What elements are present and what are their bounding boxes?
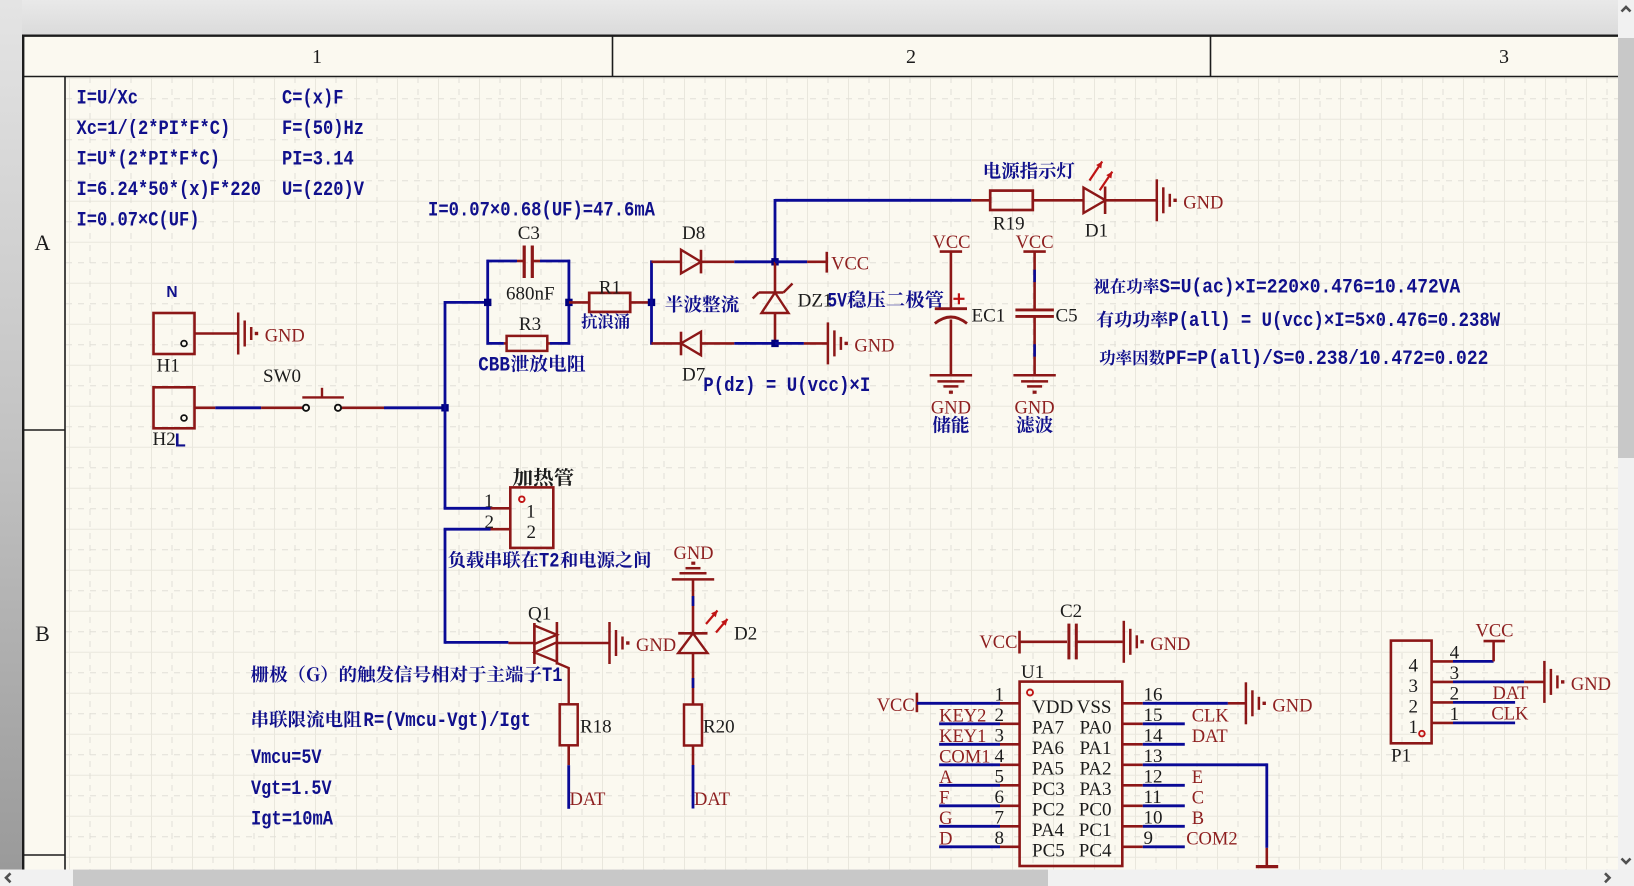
- svg-text:T2: T2: [539, 551, 560, 574]
- svg-text:D8: D8: [682, 223, 705, 244]
- svg-text:GND: GND: [636, 636, 676, 656]
- wire P1 pin3 to GND: [1453, 681, 1524, 684]
- U1 pin 10: [1122, 825, 1143, 828]
- heater pin 2: [491, 528, 511, 531]
- U1 pin 1: [1000, 702, 1020, 705]
- resistor R20: [684, 705, 702, 746]
- wire P1 pin1 CLK: [1453, 722, 1515, 725]
- resistor R1: [569, 293, 652, 312]
- resistor R19: [971, 191, 1083, 210]
- note lü-bo: [1017, 416, 1053, 433]
- svg-text:2: 2: [1409, 696, 1419, 717]
- header column divider 2/3: [1210, 37, 1212, 77]
- note chuan-lian-xian-liu R=(Vmcu-Vgt)/Igt: [252, 710, 361, 728]
- svg-text:A: A: [35, 230, 51, 255]
- triac Q1: [508, 622, 609, 704]
- U1 pin 7: [1000, 825, 1020, 828]
- ground flag GND at P1: [1544, 661, 1611, 703]
- svg-text:PC5: PC5: [1032, 840, 1065, 861]
- svg-text:E: E: [1192, 768, 1203, 788]
- svg-text:U1: U1: [1021, 662, 1044, 683]
- diode D8: [652, 250, 735, 274]
- wire net A: [939, 784, 1000, 787]
- wire net COM1: [939, 763, 1000, 766]
- note fu-zai-chuan-lian T2: [448, 551, 538, 568]
- wire net D: [939, 845, 1000, 848]
- svg-text:PC4: PC4: [1079, 840, 1112, 861]
- svg-text:P(all) = U(vcc)×I=5×0.476=0.23: P(all) = U(vcc)×I=5×0.476=0.238W: [1168, 310, 1500, 333]
- ground flag GND at H1: [238, 313, 305, 355]
- svg-text:C: C: [1192, 788, 1204, 808]
- svg-text:CLK: CLK: [1491, 705, 1529, 725]
- svg-text:T1: T1: [542, 665, 563, 688]
- svg-text:PA0: PA0: [1079, 717, 1111, 738]
- wire main vertical upper: [444, 301, 447, 508]
- svg-text:5V: 5V: [827, 291, 847, 314]
- resistor R3: [507, 336, 548, 351]
- pin of H1: [195, 332, 239, 335]
- note chu-neng: [933, 416, 969, 433]
- svg-text:R3: R3: [519, 314, 541, 335]
- ground flag GND at rectifier: [828, 322, 895, 364]
- svg-text:N: N: [166, 284, 177, 301]
- svg-text:DAT: DAT: [694, 790, 730, 810]
- U1 pin 15: [1122, 722, 1143, 725]
- svg-text:D7: D7: [682, 365, 705, 386]
- connector H1: [154, 313, 195, 354]
- ground flag GND at Q1: [610, 622, 677, 664]
- wire C3 loop right: [568, 260, 571, 345]
- diode D7: [652, 332, 735, 356]
- svg-text:4: 4: [1409, 655, 1419, 676]
- P1 pin 2: [1432, 701, 1453, 704]
- svg-text:VCC: VCC: [877, 696, 915, 716]
- junction at SW0 node: [441, 404, 448, 411]
- LED D1 arrows: [1090, 162, 1103, 181]
- svg-text:PA6: PA6: [1032, 738, 1064, 759]
- wire D7 to GND node: [734, 342, 776, 345]
- svg-text:Vgt=1.5V: Vgt=1.5V: [251, 778, 332, 801]
- wire to GND flag: [775, 342, 804, 345]
- pin of H2: [195, 406, 216, 409]
- svg-text:C5: C5: [1056, 306, 1078, 327]
- svg-text:KEY1: KEY1: [939, 727, 986, 747]
- P1 pin 3: [1432, 681, 1453, 684]
- svg-text:D: D: [939, 829, 952, 849]
- svg-text:3: 3: [1409, 676, 1419, 697]
- U1 pin 3: [1000, 743, 1020, 746]
- header column divider 1/2: [612, 37, 614, 77]
- capacitor C5: [1015, 252, 1054, 376]
- svg-text:PC0: PC0: [1079, 799, 1112, 820]
- svg-text:F=(50)Hz: F=(50)Hz: [282, 118, 364, 141]
- svg-text:PA3: PA3: [1079, 779, 1111, 800]
- svg-text:GND: GND: [931, 399, 971, 419]
- U1 pin 16: [1122, 702, 1143, 705]
- svg-text:DAT: DAT: [1493, 684, 1529, 704]
- svg-text:I=U*(2*PI*F*C): I=U*(2*PI*F*C): [77, 149, 221, 172]
- wire to heater pin 1: [444, 507, 491, 510]
- LED D2: [678, 633, 707, 704]
- svg-text:C=(x)F: C=(x)F: [282, 88, 344, 111]
- svg-text:1: 1: [312, 46, 322, 68]
- pin below R18: [567, 745, 570, 765]
- svg-text:R19: R19: [993, 214, 1025, 235]
- svg-text:Igt=10mA: Igt=10mA: [251, 809, 333, 832]
- U1 pin 14: [1122, 743, 1143, 746]
- svg-text:VCC: VCC: [932, 233, 970, 253]
- ground flag GND at U1 pin16: [1246, 682, 1313, 724]
- connector P1: [1391, 641, 1432, 744]
- U1 pin 12: [1122, 784, 1143, 787]
- wire U1 pin13 horizontal: [1143, 763, 1267, 766]
- svg-text:1: 1: [526, 502, 536, 523]
- note dian-yuan-zhi-shi-deng: [985, 162, 1075, 179]
- U1 pin 5: [1000, 784, 1020, 787]
- svg-text:B: B: [1192, 809, 1204, 829]
- formula active power: [1097, 311, 1168, 328]
- svg-text:GND: GND: [854, 337, 894, 357]
- svg-text:DAT: DAT: [1192, 727, 1228, 747]
- svg-text:C2: C2: [1060, 601, 1082, 622]
- junction C3 loop left: [484, 299, 491, 306]
- scrollbar corner: [1618, 870, 1634, 886]
- svg-text:D1: D1: [1085, 221, 1108, 242]
- svg-text:P(dz) = U(vcc)×I: P(dz) = U(vcc)×I: [703, 375, 870, 398]
- wire top to C3 loop: [445, 301, 488, 304]
- right scrollbar up arrow: [1622, 7, 1631, 12]
- margin row divider bottom: [23, 854, 65, 856]
- ground earth at EC1: [930, 375, 972, 394]
- U1 pin 8: [1000, 845, 1020, 848]
- svg-text:B: B: [35, 621, 50, 646]
- wire P1 pin4 to VCC: [1453, 660, 1494, 663]
- pin GND to D2: [692, 579, 695, 633]
- svg-text:PF=P(all)/S=0.238/10.472=0.022: PF=P(all)/S=0.238/10.472=0.022: [1165, 348, 1488, 371]
- svg-text:VSS: VSS: [1077, 697, 1112, 718]
- P1 pin 4: [1432, 660, 1453, 663]
- junction C3 loop right: [565, 299, 572, 306]
- wire C3 top left: [487, 260, 518, 263]
- ground earth inverted above D2: [672, 562, 714, 580]
- pin13 ground stem: [1266, 848, 1269, 867]
- wire VCC to U1 pin1: [917, 702, 1000, 705]
- svg-text:GND: GND: [1571, 675, 1611, 695]
- note ban-bo-zheng-liu: [665, 295, 738, 313]
- wire SW0 to main node: [384, 406, 446, 409]
- U1 pin 2: [1000, 722, 1020, 725]
- svg-text:GND: GND: [265, 327, 305, 347]
- wire top horizontal to R19: [775, 199, 971, 202]
- wire C3 loop left: [486, 260, 489, 345]
- ground earth at pin13 (clipped): [1256, 865, 1278, 868]
- svg-text:GND: GND: [1150, 635, 1190, 655]
- heater pin 1: [491, 507, 511, 510]
- wire net B: [1143, 825, 1185, 828]
- sheet outer border: [22, 35, 1618, 37]
- svg-text:GND: GND: [1015, 399, 1055, 419]
- svg-text:GND: GND: [1183, 194, 1223, 214]
- svg-text:COM1: COM1: [939, 747, 990, 767]
- power flag VCC at P1: [1484, 640, 1505, 643]
- wire net E: [1143, 784, 1185, 787]
- svg-text:KEY2: KEY2: [939, 706, 986, 726]
- wire D8 to VCC node: [734, 260, 776, 263]
- svg-text:U=(220)V: U=(220)V: [282, 179, 364, 202]
- wire U1 pin16 to GND: [1143, 702, 1228, 705]
- U1 pin 11: [1122, 804, 1143, 807]
- wire net G: [939, 825, 1000, 828]
- grey band above sheet: [0, 0, 1634, 35]
- bottom scrollbar left arrow: [6, 873, 11, 882]
- wire net KEY1: [939, 743, 1000, 746]
- svg-text:G: G: [939, 809, 952, 829]
- bottom scrollbar right arrow: [1605, 873, 1610, 882]
- capacitor C2: [1020, 624, 1123, 660]
- wire net C: [1143, 804, 1185, 807]
- svg-text:PA2: PA2: [1079, 758, 1111, 779]
- svg-text:PI=3.14: PI=3.14: [282, 149, 354, 172]
- zener diode DZ1: [753, 262, 793, 344]
- pin below R20: [692, 746, 695, 766]
- ground flag GND at C2: [1124, 621, 1191, 663]
- svg-text:Q1: Q1: [528, 604, 551, 625]
- svg-text:PC1: PC1: [1079, 820, 1112, 841]
- svg-text:3: 3: [1499, 46, 1509, 68]
- power flag VCC right of D8: [825, 252, 828, 273]
- svg-text:Xc=1/(2*PI*F*C): Xc=1/(2*PI*F*C): [77, 118, 231, 141]
- svg-text:I=0.07×0.68(UF)=47.6mA: I=0.07×0.68(UF)=47.6mA: [428, 200, 655, 223]
- bottom scrollbar track: [0, 870, 1618, 886]
- right scrollbar thumb: [1618, 38, 1634, 458]
- wire net F: [939, 804, 1000, 807]
- svg-text:I=U/Xc: I=U/Xc: [77, 88, 139, 111]
- svg-text:P1: P1: [1391, 746, 1411, 767]
- wire main vertical lower: [444, 529, 447, 644]
- junction at R1 right: [648, 299, 655, 306]
- LED D2 arrows: [706, 611, 718, 625]
- svg-text:PA7: PA7: [1032, 717, 1064, 738]
- svg-text:2: 2: [906, 46, 916, 68]
- svg-text:2: 2: [527, 522, 537, 543]
- svg-text:CLK: CLK: [1192, 706, 1230, 726]
- svg-text:I=6.24*50*(x)F*220: I=6.24*50*(x)F*220: [77, 179, 262, 202]
- ground flag GND at D1: [1157, 179, 1224, 221]
- svg-text:L: L: [175, 431, 186, 451]
- wire net CLK: [1143, 722, 1185, 725]
- wire to VCC flag: [775, 260, 807, 263]
- svg-text:PA1: PA1: [1079, 738, 1111, 759]
- formula apparent power: [1093, 278, 1158, 294]
- capacitor C3: [523, 246, 526, 279]
- switch SW0: [261, 388, 384, 411]
- svg-text:H1: H1: [157, 356, 180, 377]
- right scrollbar track: [1618, 0, 1634, 870]
- wire H2 to SW0: [215, 406, 261, 409]
- svg-text:PC3: PC3: [1032, 779, 1065, 800]
- capacitor EC1 electrolytic: [935, 252, 967, 376]
- IC U1 body: [1020, 682, 1123, 866]
- wire R3 left: [487, 342, 504, 345]
- wire DAT at R20: [692, 765, 695, 809]
- wire net KEY2: [939, 722, 1000, 725]
- note jia-re-guan: [513, 468, 574, 486]
- svg-text:680nF: 680nF: [506, 284, 555, 305]
- wire D8-D7 vertical: [650, 260, 653, 344]
- connector heater: [510, 487, 553, 548]
- svg-text:R=(Vmcu-Vgt)/Igt: R=(Vmcu-Vgt)/Igt: [363, 710, 530, 733]
- U1 pin 13: [1122, 763, 1143, 766]
- svg-text:VDD: VDD: [1032, 697, 1073, 718]
- note kang-lang-yong: [581, 313, 629, 329]
- svg-text:S=U(ac)×I=220×0.476=10.472VA: S=U(ac)×I=220×0.476=10.472VA: [1159, 277, 1460, 300]
- svg-text:C3: C3: [518, 223, 540, 244]
- svg-text:SW0: SW0: [263, 366, 301, 387]
- svg-text:D2: D2: [734, 624, 757, 645]
- svg-text:I=0.07×C(UF): I=0.07×C(UF): [77, 210, 200, 233]
- note zha-ji chu-fa-xin-hao: [251, 665, 541, 682]
- wire net DAT: [1143, 743, 1185, 746]
- svg-text:EC1: EC1: [972, 306, 1006, 327]
- wire P1 pin2 DAT: [1453, 701, 1515, 704]
- junction GND node: [771, 340, 778, 347]
- svg-text:VCC: VCC: [831, 255, 869, 275]
- svg-text:COM2: COM2: [1186, 829, 1237, 849]
- connector H2: [154, 387, 195, 428]
- svg-text:PC2: PC2: [1032, 799, 1065, 820]
- svg-text:CBB: CBB: [478, 355, 510, 378]
- wire to Q1: [445, 641, 508, 644]
- svg-text:GND: GND: [1272, 697, 1312, 717]
- wire to heater pin 2: [444, 528, 491, 531]
- svg-text:R20: R20: [703, 717, 735, 738]
- right scrollbar down arrow: [1622, 859, 1631, 864]
- wire net COM2: [1143, 845, 1185, 848]
- wire U1 pin13 vertical: [1265, 763, 1268, 848]
- wire C3 top right: [533, 260, 541, 263]
- formula power factor: [1100, 350, 1165, 366]
- wire R3 right: [547, 342, 550, 345]
- svg-text:1: 1: [1409, 717, 1419, 738]
- ground earth at C5: [1013, 375, 1055, 394]
- svg-text:A: A: [939, 768, 953, 788]
- svg-text:GND: GND: [673, 544, 713, 564]
- svg-text:PA4: PA4: [1032, 820, 1065, 841]
- svg-text:DAT: DAT: [570, 790, 606, 810]
- svg-text:H2: H2: [153, 429, 176, 450]
- svg-text:F: F: [939, 788, 949, 808]
- wire VCC node vertical: [774, 199, 777, 262]
- LED D1: [1084, 187, 1157, 215]
- P1 pin 1: [1432, 722, 1453, 725]
- U1 pin 6: [1000, 804, 1020, 807]
- U1 pin1 marker: [1027, 690, 1033, 696]
- svg-text:Vmcu=5V: Vmcu=5V: [251, 747, 322, 770]
- wire DAT at R18: [567, 765, 570, 809]
- sheet inner border: [23, 76, 1618, 78]
- margin row divider A/B: [23, 429, 65, 431]
- resistor R18: [560, 704, 578, 745]
- svg-text:VCC: VCC: [979, 633, 1017, 653]
- svg-text:VCC: VCC: [1475, 622, 1513, 642]
- U1 pin 4: [1000, 763, 1020, 766]
- bottom scrollbar thumb: [73, 870, 1048, 886]
- svg-text:R1: R1: [599, 278, 621, 299]
- svg-text:VCC: VCC: [1016, 233, 1054, 253]
- svg-text:PA5: PA5: [1032, 758, 1064, 779]
- junction VCC node: [771, 258, 778, 265]
- svg-text:R18: R18: [580, 717, 612, 738]
- grey strip left of sheet: [0, 0, 22, 870]
- U1 pin 9: [1122, 845, 1143, 848]
